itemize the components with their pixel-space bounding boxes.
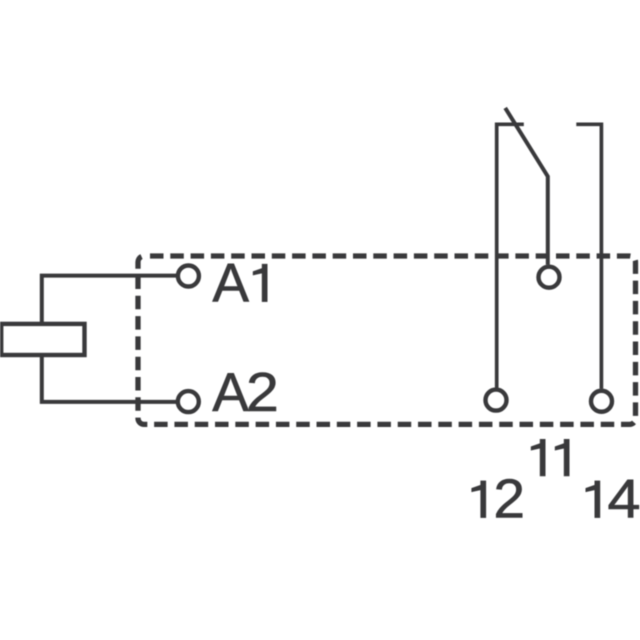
svg-text:2: 2 (493, 468, 525, 530)
svg-text:A: A (212, 361, 249, 423)
label 12 (472, 468, 525, 530)
terminal 14 (591, 391, 612, 412)
coil K1 (1, 324, 84, 355)
label 14 (586, 468, 640, 530)
wire fixed contact 14 (576, 124, 601, 388)
svg-text:2: 2 (246, 361, 279, 423)
relay enclosure dashed outline (138, 256, 636, 424)
wire coil to A1 (42, 276, 178, 324)
terminal 12 (486, 390, 507, 411)
svg-text:4: 4 (607, 468, 640, 530)
label 11 (531, 439, 569, 476)
switch armature 11 (505, 108, 548, 265)
wire coil to A2 (42, 355, 178, 402)
terminal A2 (178, 391, 199, 412)
wire fixed contact 12 (497, 124, 524, 387)
svg-text:A: A (212, 252, 249, 314)
terminal 11 (539, 267, 560, 288)
terminal A1 (178, 266, 199, 287)
label A2 (212, 361, 279, 423)
label A1 (212, 252, 267, 314)
